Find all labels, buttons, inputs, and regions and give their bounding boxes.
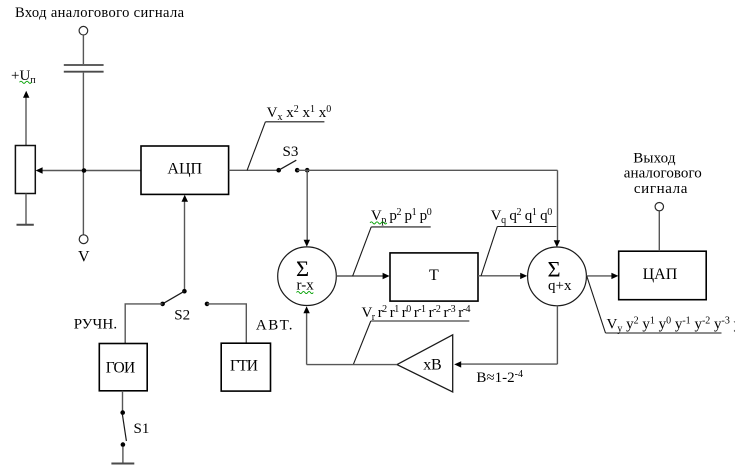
svg-text:Vq q2 q1 q0: Vq q2 q1 q0: [491, 207, 553, 226]
switch S2 right contact dot: [205, 302, 210, 307]
svg-text:Vx x2 x1 x0: Vx x2 x1 x0: [267, 104, 332, 123]
svg-text:S1: S1: [134, 421, 150, 437]
wire amplifier to left: [307, 364, 397, 366]
wire S3 down into sum1: [306, 170, 308, 240]
svg-text:ЦАП: ЦАП: [643, 266, 678, 283]
resistor R1: [15, 146, 35, 194]
summing node 1 (r-x): [278, 247, 337, 306]
wire GOI down to S1: [122, 391, 124, 411]
svg-text:аналогового: аналогового: [624, 166, 702, 182]
wire capacitor down to terminal V: [82, 73, 84, 235]
svg-text:Vy y2 y1 y0 y-1 y-2 y-3 y-: Vy y2 y1 y0 y-1 y-2 y-3 y-: [607, 316, 735, 335]
switch S3 right dot: [305, 168, 310, 173]
block T: [390, 253, 478, 301]
summing node 2 (q+x): [528, 247, 587, 306]
amplifier xB triangle: [397, 335, 453, 392]
switch S3 blade: [279, 160, 297, 170]
svg-text:РУЧН.: РУЧН.: [74, 316, 117, 332]
terminal input circle: [79, 26, 88, 35]
green squiggle under Vp: [370, 222, 387, 224]
wire circle to capacitor: [82, 35, 84, 64]
svg-text:q+x: q+x: [548, 278, 572, 294]
switch S1 bottom dot: [121, 442, 126, 447]
terminal V circle: [79, 235, 88, 244]
wire below resistor: [25, 194, 27, 225]
svg-text:Выход: Выход: [633, 150, 676, 166]
arrow up from resistor (+Un): [25, 97, 27, 146]
wire sum1 to T: [336, 275, 383, 277]
switch S3 left contact dot: [276, 168, 281, 173]
long wire S3 to summing node 2: [297, 169, 557, 171]
svg-text:V: V: [78, 248, 90, 265]
green squiggle under r-x: [297, 291, 314, 293]
output terminal circle: [655, 203, 663, 211]
wire ADC to S3: [229, 169, 277, 171]
feedback wire left to amplifier: [461, 363, 558, 365]
switch S1 top dot: [120, 410, 125, 415]
feedback wire down from sum2: [556, 306, 558, 364]
svg-text:сигнала: сигнала: [634, 181, 688, 197]
wire down into sum2: [557, 170, 559, 241]
ground under resistor: [17, 224, 34, 226]
wire up into sum1: [306, 313, 308, 365]
switch S1 blade: [122, 415, 126, 442]
capacitor C plate 2: [64, 71, 104, 73]
green squiggle under U: [20, 81, 32, 83]
svg-text:Vr r2 r1 r0 r-1 r-2 r-3 r-4: Vr r2 r1 r0 r-1 r-2 r-3 r-4: [362, 304, 471, 323]
block GTI (ГТИ): [221, 343, 270, 391]
svg-text:Вход аналогового сигнала: Вход аналогового сигнала: [15, 5, 185, 21]
svg-text:ГТИ: ГТИ: [230, 357, 258, 374]
junction dot on input line: [82, 168, 87, 173]
wire T to sum2: [478, 275, 521, 277]
svg-text:хВ: хВ: [423, 356, 442, 373]
wire ADC down to S2, arrow up: [184, 201, 186, 291]
svg-text:АВТ.: АВТ.: [256, 317, 293, 333]
svg-text:АЦП: АЦП: [167, 160, 202, 177]
svg-text:Т: Т: [429, 267, 439, 284]
wire left contact to GOI: [125, 304, 162, 343]
switch S2 left contact dot: [160, 302, 165, 307]
block GOI (ГОИ): [99, 344, 147, 391]
wire sum2 to DAC: [587, 275, 613, 277]
wire node to resistor with left arrow: [41, 170, 141, 172]
ground under S1: [111, 463, 134, 465]
svg-text:Vp p2 p1 p0: Vp p2 p1 p0: [371, 207, 432, 226]
switch S2 blade: [164, 291, 185, 303]
block DAC (ЦАП): [619, 251, 707, 300]
svg-text:S2: S2: [174, 307, 190, 323]
block ADC (АЦП): [141, 146, 229, 194]
svg-text:ГОИ: ГОИ: [106, 360, 136, 377]
wire terminal to DAC: [658, 211, 660, 251]
svg-text:r-x: r-x: [297, 278, 315, 294]
capacitor C plate 1: [64, 64, 104, 66]
switch S3 middle dot: [295, 168, 300, 173]
wire right contact to GTI: [207, 304, 246, 343]
switch S2 top dot: [182, 289, 187, 294]
wire S1 to ground: [122, 447, 124, 463]
svg-text:S3: S3: [283, 144, 299, 160]
